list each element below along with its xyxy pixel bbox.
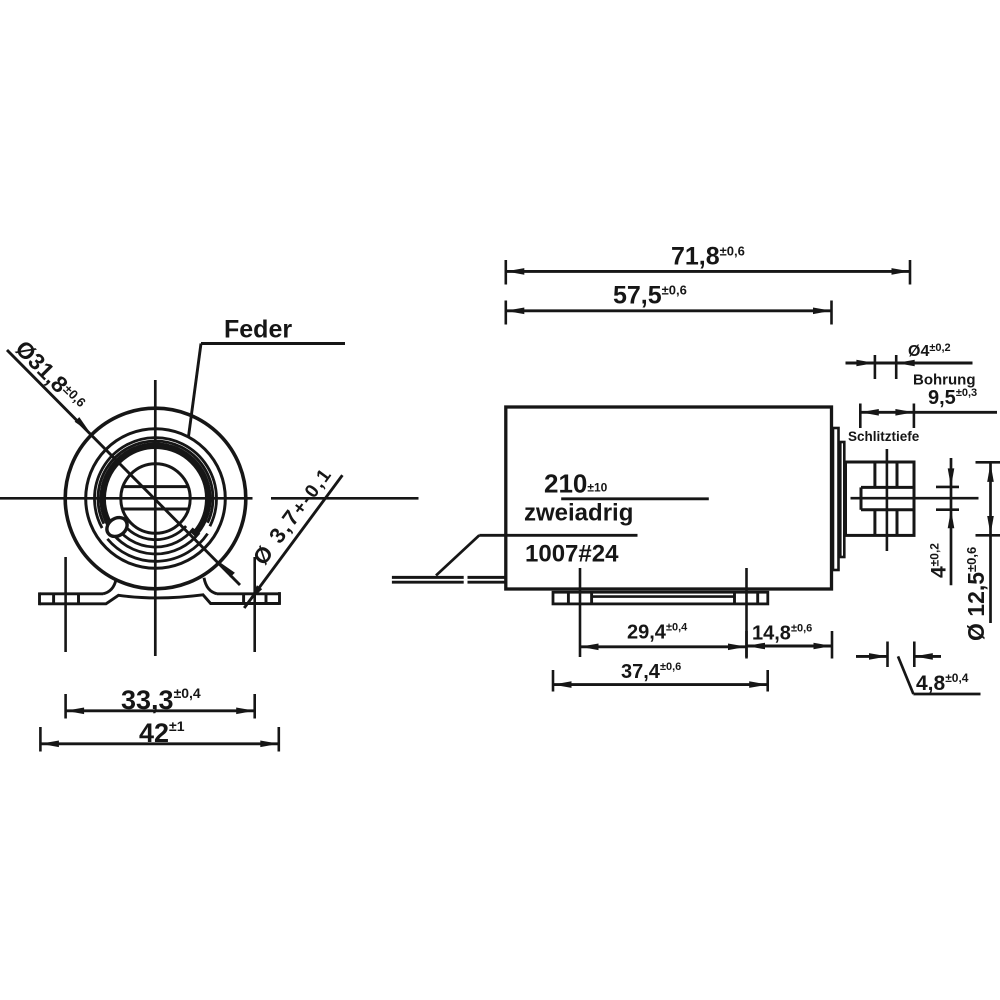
svg-text:14,8±0,6: 14,8±0,6 [752, 623, 812, 645]
solenoid body side view rectangle [506, 407, 832, 589]
spring coil arc r55 [109, 529, 199, 554]
mounting bracket foot top edge right [217, 592, 280, 595]
side foot outline [553, 592, 768, 604]
bracket foot left end [38, 592, 41, 605]
label 42 [139, 718, 185, 748]
svg-text:9,5±0,3: 9,5±0,3 [928, 387, 977, 409]
dimension 14.8 [747, 631, 833, 659]
node front-view vertical centerline [154, 380, 157, 656]
dimension 71.8 [506, 260, 910, 285]
side foot left slot centerline [579, 568, 582, 657]
plunger circle [121, 464, 190, 533]
mounting bracket foot top edge left [40, 592, 104, 595]
plunger slot closed end [860, 487, 863, 509]
svg-text:Feder: Feder [224, 316, 292, 344]
plunger slot lower chord [122, 508, 189, 511]
svg-text:37,4±0,6: 37,4±0,6 [621, 661, 681, 683]
bracket foot right end [278, 592, 281, 605]
dimension 29.4 [580, 631, 747, 659]
label Feder [224, 316, 292, 344]
coil circle inner [98, 441, 213, 524]
svg-text:1007#24: 1007#24 [525, 541, 619, 568]
svg-text:4,8±0,4: 4,8±0,4 [916, 671, 969, 695]
mounting bracket foot bottom edge [40, 595, 280, 604]
dimension 4.8 [856, 642, 981, 695]
hole edge right [896, 462, 899, 535]
label 210 [544, 469, 608, 499]
Feder leader underline [201, 342, 345, 345]
hole edge left [873, 462, 876, 535]
spring coil arc r48 [115, 525, 194, 547]
plunger block outline [846, 462, 915, 535]
spring coil arc r62 [107, 534, 207, 562]
svg-text:57,5±0,6: 57,5±0,6 [613, 282, 687, 310]
bracket left fillet [103, 580, 116, 594]
bracket left slot edge 1 [52, 594, 55, 604]
bracket left slot edge 2 [77, 594, 80, 604]
label 1007#24 [525, 541, 619, 568]
bracket left slot centerline [64, 557, 67, 652]
label 14.8 [752, 623, 812, 645]
side foot bridge line [592, 595, 735, 598]
zweiadrig underline [479, 534, 637, 537]
label zweiadrig [524, 500, 633, 527]
coil circle outer [94, 438, 216, 528]
svg-text:Bohrung: Bohrung [913, 372, 975, 389]
label 9.5 [928, 387, 977, 409]
label 33.3 [121, 685, 201, 715]
label dia12.5 [963, 547, 989, 641]
svg-text:Schlitztiefe: Schlitztiefe [848, 429, 920, 444]
hole vertical centerline [886, 449, 889, 551]
spring coil arc r41 [122, 522, 186, 540]
svg-text:Ø31,8±0,6: Ø31,8±0,6 [10, 335, 91, 416]
dimension line dia31.8 [7, 350, 240, 585]
svg-text:4±0,2: 4±0,2 [928, 543, 951, 578]
dimension 42 [40, 727, 278, 752]
dimension dia12.5 [976, 462, 1000, 623]
plunger slot upper chord [123, 485, 189, 488]
spring wire end loop [103, 514, 131, 541]
wire leader diagonal [436, 535, 479, 575]
node front-view horizontal centerline [0, 497, 253, 500]
bobbin flange plate A [833, 428, 839, 570]
solenoid bore circle [86, 429, 226, 569]
bracket right slot centerline [253, 557, 256, 652]
label Schlitztiefe [848, 429, 920, 444]
label 71.8 [671, 243, 745, 271]
label 57.5 [613, 282, 687, 310]
plunger slot top line [861, 486, 914, 489]
bracket right slot edge 1 [242, 594, 245, 604]
bracket right slot edge 2 [265, 594, 268, 604]
label dia3.7 [248, 462, 337, 570]
label 37.4 [621, 661, 681, 683]
svg-text:71,8±0,6: 71,8±0,6 [671, 243, 745, 271]
svg-text:zweiadrig: zweiadrig [524, 500, 633, 527]
dimension 9.5 schlitztiefe [860, 404, 997, 429]
label 29.4 [627, 622, 688, 644]
spring thick ring (Feder) [103, 446, 209, 535]
label 4 slot [928, 543, 951, 578]
dimension line dia3.7 [244, 475, 342, 608]
dimension 37.4 [553, 670, 768, 692]
svg-text:Ø4±0,2: Ø4±0,2 [908, 342, 951, 360]
label Bohrung [913, 372, 975, 389]
side view horizontal centerline [851, 497, 979, 500]
wire pair bottom [392, 581, 505, 584]
dimension 33.3 [66, 694, 255, 719]
svg-text:29,4±0,4: 29,4±0,4 [627, 622, 688, 644]
node front-view horizontal centerline extension right [271, 497, 419, 500]
solenoid body outer circle [65, 408, 246, 589]
label dia4 [908, 342, 951, 360]
svg-text:Ø 12,5±0,6: Ø 12,5±0,6 [963, 547, 989, 641]
dimension dia4 bohrung [846, 355, 973, 379]
svg-text:Ø 3,7+-0,1: Ø 3,7+-0,1 [248, 462, 337, 570]
dimension 4 slot width [936, 458, 959, 585]
210 underline [561, 497, 709, 500]
label 4.8 [916, 671, 969, 695]
wire pair top [392, 576, 505, 579]
bracket right fillet [204, 578, 217, 594]
side foot slot edges [568, 592, 757, 604]
dimension 57.5 [506, 301, 832, 325]
plunger slot bottom line [861, 508, 914, 511]
svg-text:210±10: 210±10 [544, 469, 608, 499]
label dia31.8 [10, 335, 91, 416]
bobbin flange plate B [840, 442, 844, 557]
Feder leader line [189, 344, 202, 437]
side foot right slot centerline [745, 568, 748, 657]
